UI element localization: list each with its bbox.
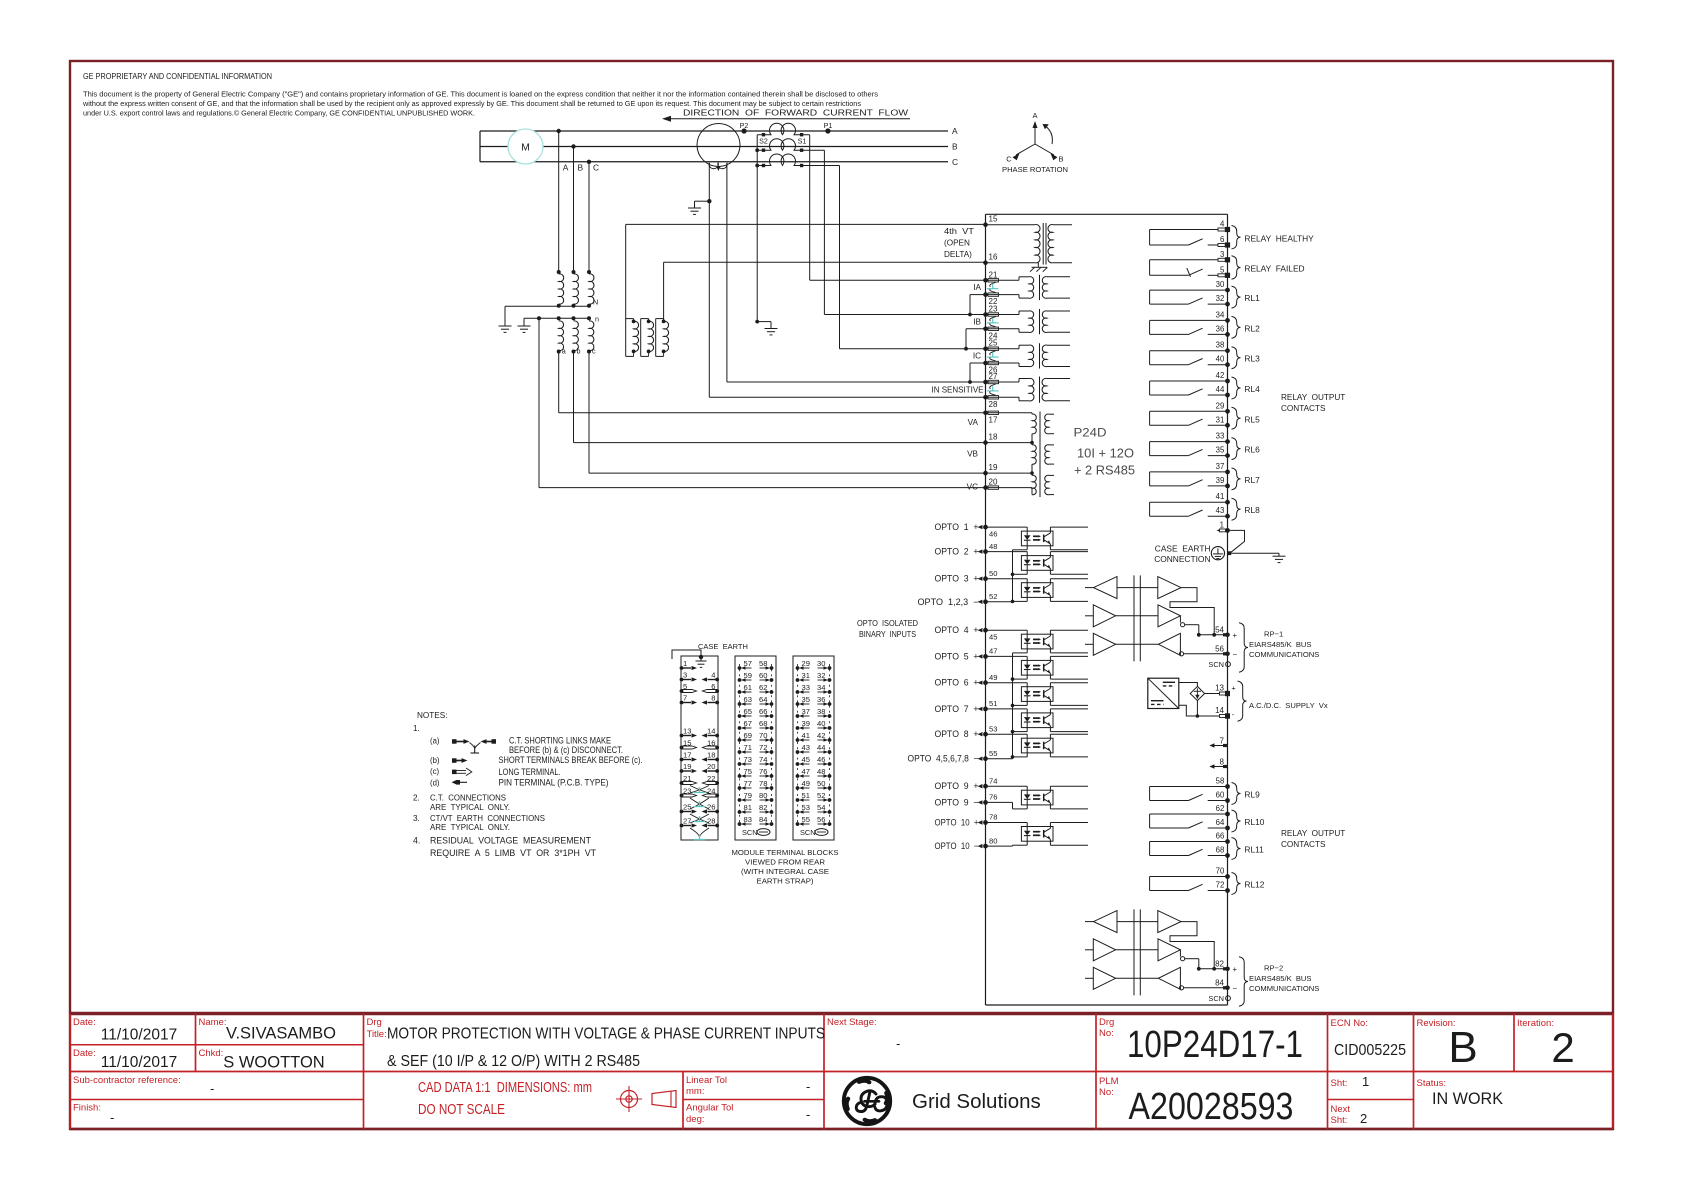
svg-text:29: 29 [802, 659, 810, 668]
svg-text:44: 44 [817, 743, 825, 752]
svg-text:19: 19 [989, 463, 998, 472]
svg-text:EARTH STRAP): EARTH STRAP) [757, 877, 815, 886]
svg-text:S2: S2 [759, 137, 768, 146]
svg-text:IA: IA [973, 283, 981, 292]
svg-text:64: 64 [1216, 818, 1225, 827]
svg-text:1.: 1. [413, 724, 420, 733]
svg-text:31: 31 [802, 671, 810, 680]
svg-text:32: 32 [817, 671, 825, 680]
svg-text:51: 51 [802, 791, 810, 800]
svg-text:46: 46 [989, 530, 997, 539]
svg-text:(WITH INTEGRAL CASE: (WITH INTEGRAL CASE [741, 867, 829, 876]
svg-text:A: A [1032, 111, 1037, 120]
svg-text:68: 68 [1216, 846, 1225, 855]
svg-text:CT/VT EARTH CONNECTIONS: CT/VT EARTH CONNECTIONS [430, 814, 546, 823]
svg-text:RL10: RL10 [1244, 817, 1264, 827]
svg-text:60: 60 [1216, 791, 1225, 800]
svg-text:1: 1 [1362, 1074, 1369, 1089]
svg-text:CASE EARTH: CASE EARTH [698, 642, 748, 651]
svg-text:25: 25 [989, 339, 998, 348]
svg-text:73: 73 [744, 755, 752, 764]
svg-text:RELAY HEALTHY: RELAY HEALTHY [1244, 233, 1314, 243]
svg-text:+ 2 RS485: + 2 RS485 [1074, 464, 1135, 478]
svg-text:27: 27 [989, 372, 998, 381]
svg-text:15: 15 [683, 738, 691, 747]
svg-text:65: 65 [744, 707, 752, 716]
svg-text:RP−1: RP−1 [1264, 629, 1283, 638]
svg-text:RELAY OUTPUT: RELAY OUTPUT [1281, 829, 1345, 838]
svg-text:Sht:: Sht: [1331, 1115, 1348, 1126]
svg-text:31: 31 [1216, 415, 1225, 424]
svg-text:A: A [952, 126, 958, 136]
svg-text:37: 37 [1216, 462, 1225, 471]
svg-text:1: 1 [683, 659, 687, 668]
svg-text:83: 83 [744, 815, 752, 824]
svg-text:80: 80 [989, 836, 997, 845]
svg-text:40: 40 [1216, 355, 1225, 364]
svg-text:C: C [593, 163, 599, 173]
svg-text:40: 40 [817, 719, 825, 728]
svg-text:37: 37 [802, 707, 810, 716]
svg-text:OPTO 9 +: OPTO 9 + [935, 781, 979, 791]
svg-text:28: 28 [989, 400, 998, 409]
svg-text:LONG TERMINAL.: LONG TERMINAL. [499, 767, 561, 777]
svg-text:OPTO 7 +: OPTO 7 + [935, 704, 979, 714]
svg-text:53: 53 [989, 724, 997, 733]
svg-text:OPTO 2 +: OPTO 2 + [935, 547, 979, 557]
svg-text:53: 53 [802, 803, 810, 812]
svg-text:61: 61 [744, 683, 752, 692]
svg-text:17: 17 [989, 415, 998, 424]
svg-text:79: 79 [744, 791, 752, 800]
svg-text:SCN: SCN [742, 828, 758, 837]
svg-text:RL4: RL4 [1244, 384, 1260, 394]
svg-text:VIEWED FROM REAR: VIEWED FROM REAR [745, 858, 826, 867]
svg-text:2.: 2. [413, 794, 420, 803]
svg-text:B: B [1448, 1023, 1477, 1072]
svg-text:REQUIRE A 5 LIMB VT OR 3: REQUIRE A 5 LIMB VT OR 3*1PH VT [430, 848, 597, 858]
svg-text:55: 55 [989, 749, 997, 758]
svg-text:10P24D17-1: 10P24D17-1 [1127, 1024, 1303, 1066]
svg-text:3: 3 [683, 670, 687, 679]
svg-text:MODULE TERMINAL BLOCKS: MODULE TERMINAL BLOCKS [732, 848, 839, 857]
svg-text:75: 75 [744, 767, 752, 776]
svg-text:PIN TERMINAL (P.C.B. TYPE): PIN TERMINAL (P.C.B. TYPE) [499, 778, 609, 788]
svg-text:28: 28 [707, 816, 715, 825]
svg-text:+: + [1233, 631, 1238, 640]
svg-text:44: 44 [1216, 385, 1225, 394]
svg-text:13: 13 [683, 726, 691, 735]
svg-text:C: C [952, 157, 958, 167]
svg-text:OPTO 3 +: OPTO 3 + [935, 574, 979, 584]
svg-text:54: 54 [817, 803, 825, 812]
svg-text:RELAY OUTPUT: RELAY OUTPUT [1281, 393, 1345, 402]
svg-text:RL5: RL5 [1244, 414, 1260, 424]
svg-text:5: 5 [683, 682, 687, 691]
svg-text:COMMUNICATIONS: COMMUNICATIONS [1249, 650, 1319, 659]
svg-text:30: 30 [817, 659, 825, 668]
svg-text:C: C [1006, 155, 1012, 164]
svg-text:ARE TYPICAL ONLY.: ARE TYPICAL ONLY. [430, 823, 510, 832]
svg-text:This document is the property: This document is the property of General… [83, 92, 879, 99]
svg-text:DO NOT SCALE: DO NOT SCALE [418, 1101, 505, 1118]
svg-text:66: 66 [759, 707, 767, 716]
svg-text:72: 72 [1216, 881, 1225, 890]
svg-text:A20028593: A20028593 [1129, 1086, 1294, 1128]
svg-text:49: 49 [802, 779, 810, 788]
svg-text:DIRECTION OF FORWARD CURREN: DIRECTION OF FORWARD CURRENT FLOW [683, 108, 908, 118]
svg-text:45: 45 [802, 755, 810, 764]
svg-text:32: 32 [1216, 294, 1225, 303]
svg-text:EIARS485/K BUS: EIARS485/K BUS [1249, 974, 1311, 983]
svg-text:14: 14 [1215, 706, 1224, 715]
svg-text:68: 68 [759, 719, 767, 728]
svg-text:(b): (b) [430, 756, 440, 765]
svg-text:Grid Solutions: Grid Solutions [912, 1090, 1041, 1113]
svg-text:16: 16 [989, 253, 998, 262]
svg-text:No:: No: [1099, 1087, 1114, 1098]
svg-text:Chkd:: Chkd: [199, 1048, 224, 1059]
svg-text:Date:: Date: [73, 1048, 96, 1059]
svg-text:C.T. CONNECTIONS: C.T. CONNECTIONS [430, 794, 507, 803]
svg-text:RL11: RL11 [1244, 845, 1264, 855]
svg-text:58: 58 [1216, 777, 1225, 786]
svg-text:-: - [110, 1110, 114, 1125]
svg-text:74: 74 [759, 755, 767, 764]
svg-text:15: 15 [989, 215, 998, 224]
svg-text:1: 1 [1220, 520, 1224, 529]
svg-text:OPTO 8 +: OPTO 8 + [935, 729, 979, 739]
svg-text:S WOOTTON: S WOOTTON [223, 1054, 324, 1072]
svg-text:CONTACTS: CONTACTS [1281, 404, 1326, 413]
svg-text:48: 48 [989, 542, 997, 551]
svg-text:ARE TYPICAL ONLY.: ARE TYPICAL ONLY. [430, 803, 510, 812]
svg-text:OPTO 6 +: OPTO 6 + [935, 678, 979, 688]
svg-text:BEFORE (b) & (c) DISCONNECT.: BEFORE (b) & (c) DISCONNECT. [509, 745, 623, 755]
svg-text:29: 29 [1216, 401, 1225, 410]
svg-text:OPTO 1 +: OPTO 1 + [935, 522, 979, 532]
svg-text:27: 27 [683, 816, 691, 825]
svg-text:34: 34 [817, 683, 825, 692]
svg-text:CID005225: CID005225 [1334, 1042, 1406, 1059]
svg-text:6: 6 [1220, 235, 1224, 244]
svg-text:−: − [1233, 984, 1238, 993]
svg-text:7: 7 [683, 693, 687, 702]
svg-text:Angular Tol: Angular Tol [686, 1103, 733, 1114]
svg-text:SCN: SCN [800, 828, 816, 837]
svg-text:77: 77 [744, 779, 752, 788]
svg-text:N: N [593, 298, 598, 307]
svg-text:+: + [1232, 683, 1236, 692]
svg-text:63: 63 [744, 695, 752, 704]
svg-text:OPTO 10 +: OPTO 10 + [935, 818, 979, 828]
svg-text:78: 78 [759, 779, 767, 788]
svg-text:OPTO 5 +: OPTO 5 + [935, 651, 979, 661]
svg-text:4.: 4. [413, 836, 420, 846]
svg-text:38: 38 [1216, 341, 1225, 350]
svg-text:CAD DATA 1:1 DIMENSIONS: mm: CAD DATA 1:1 DIMENSIONS: mm [418, 1079, 592, 1096]
svg-text:76: 76 [989, 793, 997, 802]
svg-text:3: 3 [1220, 250, 1224, 259]
svg-text:CONNECTION: CONNECTION [1154, 554, 1210, 564]
svg-text:38: 38 [817, 707, 825, 716]
svg-text:64: 64 [759, 695, 767, 704]
svg-text:80: 80 [759, 791, 767, 800]
svg-text:A.C./D.C. SUPPLY Vx: A.C./D.C. SUPPLY Vx [1249, 701, 1328, 710]
svg-text:71: 71 [744, 743, 752, 752]
svg-text:Linear Tol: Linear Tol [686, 1075, 727, 1086]
svg-text:16: 16 [707, 738, 715, 747]
svg-text:SHORT TERMINALS BREAK BEFORE (: SHORT TERMINALS BREAK BEFORE (c). [499, 755, 643, 765]
svg-text:67: 67 [744, 719, 752, 728]
svg-text:RP−2: RP−2 [1264, 963, 1283, 972]
svg-text:22: 22 [707, 774, 715, 783]
svg-text:11/10/2017: 11/10/2017 [101, 1027, 177, 1044]
svg-text:RL3: RL3 [1244, 354, 1260, 364]
svg-text:26: 26 [707, 802, 715, 811]
svg-text:MOTOR PROTECTION WITH VOLTAGE: MOTOR PROTECTION WITH VOLTAGE & PHASE CU… [387, 1026, 825, 1043]
svg-text:mm:: mm: [686, 1086, 704, 1097]
svg-text:S1: S1 [798, 137, 807, 146]
svg-text:OPTO 1,2,3 −: OPTO 1,2,3 − [918, 597, 979, 607]
svg-text:55: 55 [802, 815, 810, 824]
svg-text:81: 81 [744, 803, 752, 812]
svg-text:8: 8 [1220, 758, 1225, 767]
svg-text:8: 8 [711, 693, 715, 702]
svg-text:(a): (a) [430, 737, 440, 746]
svg-text:14: 14 [707, 726, 715, 735]
svg-text:RL6: RL6 [1244, 445, 1260, 455]
svg-text:RL9: RL9 [1244, 790, 1260, 800]
svg-text:2: 2 [1551, 1024, 1574, 1071]
svg-text:No:: No: [1099, 1028, 1114, 1039]
svg-text:45: 45 [989, 633, 997, 642]
svg-text:Finish:: Finish: [73, 1103, 101, 1114]
svg-text:25: 25 [683, 802, 691, 811]
svg-text:50: 50 [989, 569, 997, 578]
svg-text:43: 43 [802, 743, 810, 752]
svg-text:82: 82 [1215, 959, 1224, 968]
svg-text:BINARY INPUTS: BINARY INPUTS [859, 629, 916, 639]
svg-text:34: 34 [1216, 310, 1225, 319]
svg-text:Sht:: Sht: [1331, 1078, 1348, 1089]
svg-text:VC: VC [967, 483, 978, 492]
svg-text:36: 36 [817, 695, 825, 704]
svg-text:43: 43 [1216, 506, 1225, 515]
svg-text:4: 4 [1220, 220, 1225, 229]
svg-text:11/10/2017: 11/10/2017 [101, 1054, 177, 1071]
svg-text:-: - [806, 1107, 810, 1122]
svg-text:b: b [577, 347, 581, 356]
svg-text:76: 76 [759, 767, 767, 776]
svg-text:84: 84 [1215, 978, 1224, 987]
svg-text:P2: P2 [740, 121, 749, 130]
svg-text:-: - [210, 1081, 214, 1096]
svg-text:21: 21 [989, 270, 998, 279]
svg-text:13: 13 [1215, 684, 1224, 693]
svg-text:6: 6 [711, 682, 715, 691]
svg-text:RL2: RL2 [1244, 323, 1260, 333]
svg-text:Iteration:: Iteration: [1517, 1018, 1554, 1029]
svg-text:70: 70 [1216, 867, 1225, 876]
svg-text:20: 20 [989, 478, 998, 487]
svg-text:35: 35 [802, 695, 810, 704]
svg-text:RL1: RL1 [1244, 293, 1260, 303]
svg-text:IN WORK: IN WORK [1432, 1089, 1504, 1108]
svg-text:50: 50 [817, 779, 825, 788]
svg-text:52: 52 [817, 791, 825, 800]
svg-text:PHASE ROTATION: PHASE ROTATION [1002, 165, 1068, 174]
svg-text:PLM: PLM [1099, 1076, 1119, 1087]
svg-text:under U.S. export control laws: under U.S. export control laws and regul… [83, 109, 475, 117]
svg-text:(OPEN: (OPEN [944, 239, 970, 248]
svg-text:74: 74 [989, 776, 997, 785]
svg-text:P1: P1 [824, 121, 833, 130]
svg-text:56: 56 [817, 815, 825, 824]
svg-text:RL12: RL12 [1244, 880, 1264, 890]
svg-text:18: 18 [707, 750, 715, 759]
svg-text:−: − [1233, 650, 1238, 659]
svg-text:Next Stage:: Next Stage: [827, 1017, 877, 1028]
svg-text:3.: 3. [413, 814, 420, 823]
svg-text:IC: IC [973, 352, 981, 361]
svg-text:23: 23 [989, 305, 998, 314]
svg-text:60: 60 [759, 671, 767, 680]
svg-text:47: 47 [989, 647, 997, 656]
svg-text:A: A [563, 163, 569, 173]
svg-text:20: 20 [707, 762, 715, 771]
svg-text:4th VT: 4th VT [944, 227, 974, 236]
svg-text:4: 4 [711, 670, 715, 679]
svg-text:33: 33 [1216, 432, 1225, 441]
svg-text:VA: VA [968, 418, 979, 427]
svg-text:Title:: Title: [367, 1029, 387, 1040]
svg-text:P24D: P24D [1074, 426, 1107, 440]
svg-text:33: 33 [802, 683, 810, 692]
svg-text:Drg: Drg [1099, 1017, 1114, 1028]
svg-text:V.SIVASAMBO: V.SIVASAMBO [226, 1025, 336, 1043]
svg-text:58: 58 [759, 659, 767, 668]
svg-text:47: 47 [802, 767, 810, 776]
svg-text:51: 51 [989, 699, 997, 708]
svg-text:41: 41 [1216, 492, 1225, 501]
svg-text:(c): (c) [430, 767, 439, 776]
svg-text:B: B [578, 163, 584, 173]
svg-text:82: 82 [759, 803, 767, 812]
svg-text:24: 24 [707, 786, 715, 795]
svg-text:59: 59 [744, 671, 752, 680]
svg-text:52: 52 [989, 592, 997, 601]
svg-text:RESIDUAL VOLTAGE MEASUREMENT: RESIDUAL VOLTAGE MEASUREMENT [430, 836, 592, 846]
svg-text:21: 21 [683, 774, 691, 783]
svg-text:7: 7 [1220, 737, 1225, 746]
svg-text:Name:: Name: [199, 1017, 227, 1028]
svg-text:COMMUNICATIONS: COMMUNICATIONS [1249, 984, 1319, 993]
svg-text:a: a [562, 347, 566, 356]
svg-text:SCN: SCN [1208, 994, 1224, 1003]
svg-text:49: 49 [989, 673, 997, 682]
svg-text:RL7: RL7 [1244, 475, 1260, 485]
svg-text:57: 57 [744, 659, 752, 668]
svg-text:2: 2 [1360, 1111, 1367, 1126]
svg-text:OPTO 4 +: OPTO 4 + [935, 625, 979, 635]
svg-text:DELTA): DELTA) [944, 250, 972, 259]
svg-text:46: 46 [817, 755, 825, 764]
svg-text:70: 70 [759, 731, 767, 740]
svg-text:69: 69 [744, 731, 752, 740]
svg-text:30: 30 [1216, 280, 1225, 289]
svg-text:B: B [952, 142, 958, 152]
svg-text:62: 62 [759, 683, 767, 692]
svg-text:c: c [592, 347, 596, 356]
svg-text:18: 18 [989, 433, 998, 442]
svg-text:54: 54 [1215, 625, 1224, 634]
svg-text:19: 19 [683, 762, 691, 771]
svg-text:66: 66 [1216, 832, 1225, 841]
svg-text:OPTO ISOLATED: OPTO ISOLATED [857, 618, 918, 628]
svg-text:10I + 12O: 10I + 12O [1077, 447, 1134, 461]
svg-text:62: 62 [1216, 804, 1225, 813]
svg-text:78: 78 [989, 813, 997, 822]
svg-text:42: 42 [1216, 371, 1225, 380]
svg-text:RELAY FAILED: RELAY FAILED [1244, 264, 1304, 274]
svg-text:39: 39 [1216, 476, 1225, 485]
svg-text:48: 48 [817, 767, 825, 776]
svg-text:35: 35 [1216, 446, 1225, 455]
svg-text:-: - [896, 1036, 900, 1051]
svg-text:84: 84 [759, 815, 767, 824]
svg-text:B: B [1058, 155, 1063, 164]
svg-text:& SEF (10 I/P & 12 O/P) WITH 2: & SEF (10 I/P & 12 O/P) WITH 2 RS485 [387, 1053, 640, 1070]
svg-text:41: 41 [802, 731, 810, 740]
svg-text:72: 72 [759, 743, 767, 752]
svg-text:RL8: RL8 [1244, 505, 1260, 515]
svg-text:42: 42 [817, 731, 825, 740]
svg-text:NOTES:: NOTES: [417, 711, 447, 720]
svg-text:39: 39 [802, 719, 810, 728]
svg-text:ECN No:: ECN No: [1331, 1018, 1368, 1029]
svg-text:Date:: Date: [73, 1017, 96, 1028]
svg-text:CASE EARTH: CASE EARTH [1155, 544, 1211, 554]
svg-text:IN SENSITIVE: IN SENSITIVE [932, 386, 985, 395]
svg-text:IB: IB [973, 318, 981, 327]
svg-text:CONTACTS: CONTACTS [1281, 840, 1326, 849]
svg-text:M: M [521, 142, 530, 154]
svg-text:OPTO 4,5,6,7,8 −: OPTO 4,5,6,7,8 − [908, 754, 979, 764]
svg-text:Drg: Drg [367, 1017, 382, 1028]
svg-text:SCN: SCN [1208, 660, 1224, 669]
svg-text:Status:: Status: [1417, 1078, 1447, 1089]
svg-text:17: 17 [683, 750, 691, 759]
svg-text:-: - [806, 1079, 810, 1094]
svg-text:n: n [595, 315, 599, 324]
svg-text:Next: Next [1331, 1104, 1351, 1115]
svg-text:OPTO 10 −: OPTO 10 − [935, 841, 979, 851]
svg-text:36: 36 [1216, 324, 1225, 333]
svg-text:23: 23 [683, 786, 691, 795]
svg-text:GE PROPRIETARY AND CONFIDENTIA: GE PROPRIETARY AND CONFIDENTIAL INFORMAT… [83, 72, 272, 81]
svg-text:56: 56 [1215, 644, 1224, 653]
svg-text:5: 5 [1220, 265, 1225, 274]
svg-text:deg:: deg: [686, 1114, 705, 1125]
svg-text:(d): (d) [430, 778, 440, 787]
svg-text:VB: VB [967, 450, 978, 459]
svg-text:OPTO 9 −: OPTO 9 − [935, 797, 979, 807]
svg-text:EIARS485/K BUS: EIARS485/K BUS [1249, 640, 1311, 649]
svg-text:+: + [1233, 965, 1238, 974]
svg-text:Sub-contractor reference:: Sub-contractor reference: [73, 1075, 181, 1086]
